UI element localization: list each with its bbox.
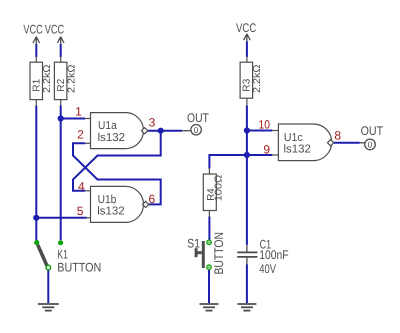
node junction pin9 <box>244 152 250 158</box>
resistor R2 <box>54 56 67 106</box>
wire C1 to ground <box>246 264 248 303</box>
resistor R3 <box>240 56 253 106</box>
wire VCC2 to R2 <box>60 44 62 57</box>
connector OUT left <box>182 125 201 135</box>
svg-text:R2: R2 <box>56 78 67 91</box>
node junction pin5/R1 <box>33 215 39 221</box>
svg-text:6: 6 <box>149 192 156 206</box>
wire pin 5 from node <box>36 217 87 219</box>
svg-text:ls132: ls132 <box>97 206 124 218</box>
node junction pin1/R2 <box>58 115 64 121</box>
svg-text:2: 2 <box>77 128 84 142</box>
svg-text:K1: K1 <box>57 247 68 261</box>
pushbutton S1 <box>196 240 211 269</box>
svg-text:40V: 40V <box>259 262 276 276</box>
wire U1a output pin 3 <box>148 130 182 132</box>
svg-text:ls132: ls132 <box>284 144 311 156</box>
svg-text:100Ω: 100Ω <box>213 174 224 201</box>
svg-text:ls132: ls132 <box>98 132 125 144</box>
node junction pin3 output <box>158 128 164 134</box>
wire K1 to ground <box>47 270 49 303</box>
svg-text:8: 8 <box>334 129 341 143</box>
node junction pin10 <box>244 127 250 133</box>
wire R2 down to button K1 right <box>60 106 62 241</box>
svg-text:U1c: U1c <box>284 132 303 144</box>
svg-text:0: 0 <box>368 140 373 150</box>
power flag VCC arrow 1 <box>33 37 40 44</box>
wire S1 to ground <box>208 270 210 303</box>
svg-text:9: 9 <box>263 142 270 156</box>
svg-text:U1a: U1a <box>98 120 117 132</box>
capacitor C1 <box>237 245 257 265</box>
svg-text:0: 0 <box>194 125 199 135</box>
svg-text:VCC: VCC <box>23 22 42 36</box>
resistor R4 <box>203 168 216 216</box>
op-amp style NAND gate U1a <box>85 113 148 149</box>
ground below K1 <box>38 304 59 311</box>
svg-text:S1: S1 <box>187 237 200 251</box>
svg-text:2.2kΩ: 2.2kΩ <box>66 64 77 93</box>
svg-text:5: 5 <box>77 204 84 218</box>
wire R3 down through U1c inputs to C1 <box>246 106 248 245</box>
wire node to R4 <box>209 155 247 169</box>
svg-text:BUTTON: BUTTON <box>57 260 101 274</box>
svg-text:U1b: U1b <box>98 194 117 206</box>
wire U1c output pin 8 <box>334 142 360 144</box>
resistor R1 <box>30 56 43 106</box>
svg-text:1: 1 <box>75 105 82 119</box>
svg-text:2.2kΩ: 2.2kΩ <box>42 64 53 93</box>
ground below C1 <box>237 304 256 311</box>
svg-text:OUT: OUT <box>361 124 384 138</box>
svg-text:10: 10 <box>259 118 271 132</box>
ground below S1 <box>200 304 219 311</box>
svg-text:VCC: VCC <box>236 21 256 35</box>
svg-text:VCC: VCC <box>45 22 64 36</box>
svg-text:OUT: OUT <box>187 111 209 125</box>
NAND gate U1c <box>272 124 333 161</box>
svg-text:R3: R3 <box>242 78 253 91</box>
NAND gate U1b <box>85 186 149 222</box>
svg-text:R1: R1 <box>31 78 42 91</box>
wire R4 to S1 <box>208 217 210 241</box>
wire pin 9 stub <box>247 154 272 156</box>
wire U1b output to U1a pin 2 (cross coupling) <box>73 143 161 204</box>
wire VCC1 to R1 <box>35 44 37 57</box>
wire R1 down to button K1 left <box>35 106 37 241</box>
connector OUT right <box>360 139 376 150</box>
svg-text:2.2kΩ: 2.2kΩ <box>252 64 263 93</box>
svg-text:BUTTON: BUTTON <box>212 232 226 275</box>
wire pin 10 stub <box>247 130 272 132</box>
svg-text:4: 4 <box>78 180 85 194</box>
power flag VCC arrow 3 <box>244 34 251 42</box>
wire pin 1 stub <box>61 118 85 120</box>
wire U1a output to U1b pin 4 (cross coupling) <box>73 131 161 191</box>
wire VCC3 to R3 <box>246 42 248 58</box>
svg-text:100nF: 100nF <box>259 248 289 262</box>
power flag VCC arrow 2 <box>57 37 64 44</box>
svg-text:3: 3 <box>149 116 156 130</box>
button K1 <box>34 240 63 270</box>
